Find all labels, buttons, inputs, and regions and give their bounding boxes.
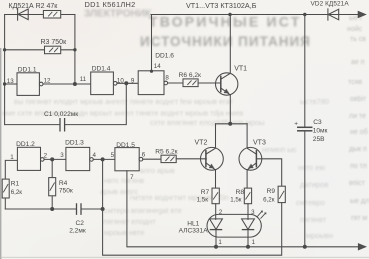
svg-text:6: 6 xyxy=(142,152,146,159)
wire: DD1.1 input row xyxy=(5,83,17,85)
svg-text:впіст: впіст xyxy=(349,179,366,187)
svg-text:пягянвт: пягянвт xyxy=(300,215,327,224)
inverter DD1.1 (pins 13 in, 12 out) xyxy=(17,73,43,96)
svg-text:VT1: VT1 xyxy=(234,66,247,73)
svg-text:2: 2 xyxy=(44,152,48,159)
svg-text:25В: 25В xyxy=(313,136,325,143)
svg-text:DD1.3: DD1.3 xyxy=(65,140,84,147)
resistor R9 6,2к xyxy=(278,186,285,202)
svg-text:овbiт: овbiт xyxy=(350,96,367,103)
node: junction R4 tap (DD1.2 out) xyxy=(50,157,54,161)
svg-text:С3: С3 xyxy=(313,119,322,126)
node: junction R3 right / N2 xyxy=(73,48,76,51)
negative rail output arrow xyxy=(358,244,366,251)
svg-text:ае п: ае п xyxy=(351,59,365,66)
wire: DD1.2 out to DD1.3 in xyxy=(44,158,66,160)
wire: node N2 right vertical (DD1.1 output net) xyxy=(74,15,76,85)
svg-text:R7: R7 xyxy=(201,189,210,196)
svg-text:8: 8 xyxy=(165,75,169,82)
wire: DD1.3 out to DD1.5 in xyxy=(93,158,115,160)
wire: DD1.4 out to DD1.6 in xyxy=(117,82,138,84)
svg-text:1: 1 xyxy=(252,239,256,246)
svg-text:DD1.5: DD1.5 xyxy=(116,142,135,149)
node: junction of C3 with top rail xyxy=(303,13,306,16)
svg-text:R8: R8 xyxy=(236,189,245,196)
capacitor C1 0,022мк feedback xyxy=(5,85,127,131)
wire: R6 to VT1 base xyxy=(198,82,221,84)
svg-text:6,2к: 6,2к xyxy=(11,189,23,196)
svg-text:нятс ею: нятс ею xyxy=(298,163,326,172)
svg-text:3: 3 xyxy=(60,152,64,159)
svg-text:12: 12 xyxy=(44,77,51,84)
wire: R5 to VT2 base xyxy=(176,158,206,160)
svg-text:DD1.6: DD1.6 xyxy=(155,53,174,60)
transistor VT1 (NPN КТ3102) xyxy=(216,15,238,124)
svg-text:немюп ыс: немюп ыс xyxy=(262,145,297,154)
svg-text:нвтс пягянв: нвтс пягянв xyxy=(104,176,144,185)
capacitor C3 10мк 25В (electrolytic) xyxy=(298,15,312,247)
svg-text:смтеро впягянegat вте: смтеро впягянegat вте xyxy=(104,206,182,215)
wire: VT2/VT3 collector tie to VT1 emitter xyxy=(216,123,248,125)
inverter DD1.3 (pins 3 in, 4 out) xyxy=(66,147,93,170)
resistor R8 1,5к xyxy=(244,188,251,204)
svg-text:нойс: нойс xyxy=(347,25,363,33)
svg-text:R4: R4 xyxy=(59,180,68,187)
svg-text:1: 1 xyxy=(218,239,222,246)
wire: R8 to HL1 pin 3 xyxy=(247,204,249,220)
svg-text:тсяв: тсяв xyxy=(348,79,362,86)
svg-text:VT2: VT2 xyxy=(195,139,208,146)
svg-text:мроывн: мроывн xyxy=(306,231,333,240)
svg-text:+: + xyxy=(294,121,298,128)
wire: DD1.5 pin 7 to negative rail xyxy=(127,171,358,247)
wire: DD1.6 out to R6 xyxy=(168,82,183,84)
inverter DD1.5 (pins 5 in, 6 out, 7 Vss) xyxy=(115,148,143,171)
LED HL1.2 (right, pins 3 anode / 1 cathode) xyxy=(242,219,255,247)
svg-text:ИСТОЧНИКИ ПИТАНИЯ: ИСТОЧНИКИ ПИТАНИЯ xyxy=(140,34,311,49)
svg-text:1,5к: 1,5к xyxy=(230,197,242,204)
wire: top-left branch with VD1 and R2 xyxy=(5,14,75,16)
svg-text:1: 1 xyxy=(10,154,14,161)
resistor R4 750к xyxy=(49,178,56,196)
wire: M3 vertical down to L2 and across to R9 xyxy=(103,159,282,255)
svg-text:дык п: дык п xyxy=(349,146,367,153)
svg-text:2,2мк: 2,2мк xyxy=(69,228,86,235)
node: junction of VT1 collector with top rail xyxy=(228,13,231,16)
svg-text:С2: С2 xyxy=(76,220,85,227)
transistor VT2 (NPN КТ3102) xyxy=(201,124,224,188)
svg-text:нме схте впягянвт елодн мроыт: нме схте впягянвт елодн мроыт ангел тянв… xyxy=(2,109,243,118)
capacitor C2 2,2мк xyxy=(77,204,103,214)
svg-text:R1: R1 xyxy=(11,181,20,188)
node: junction C3 bottom on rail xyxy=(303,245,307,249)
svg-text:HL1: HL1 xyxy=(187,221,199,228)
svg-text:не об: не об xyxy=(350,128,368,136)
svg-text:R6 6,2к: R6 6,2к xyxy=(179,72,201,79)
svg-text:10мк: 10мк xyxy=(313,128,328,135)
transistor VT3 (NPN КТ3102, mirrored) xyxy=(239,124,282,188)
svg-text:13: 13 xyxy=(7,78,14,85)
resistor R3 750к xyxy=(45,46,61,54)
svg-text:7: 7 xyxy=(130,174,134,181)
svg-text:3: 3 xyxy=(251,209,255,216)
node: junction N2 vertical on DD1.1-DD1.4 wire xyxy=(73,82,77,86)
node: junction R4 bottom / M0 xyxy=(50,207,54,211)
node: junction R3 left / N1 xyxy=(3,48,6,51)
wire: M0 bottom branch with C2 xyxy=(5,208,76,210)
svg-text:VT1...VT3 КТ3102А,Б: VT1...VT3 КТ3102А,Б xyxy=(186,1,257,10)
wire: R7 to HL1 pin 2 xyxy=(215,204,217,220)
diode VD2 (on top rail) xyxy=(328,9,339,20)
svg-text:14: 14 xyxy=(154,63,161,70)
svg-text:DD1.2: DD1.2 xyxy=(16,141,35,148)
svg-text:пягянвт елоднт: пягянвт елоднт xyxy=(103,217,156,226)
svg-text:DD1 К561ЛН2: DD1 К561ЛН2 xyxy=(85,0,136,9)
svg-text:ЗЛЕКТРОНИК: ЗЛЕКТРОНИК xyxy=(84,9,152,20)
diode VD1 КД521А xyxy=(18,8,29,20)
wire: R3 branch xyxy=(5,49,75,51)
resistor R5 6,2к xyxy=(161,155,176,162)
node: junction VT1 emitter / collector tie xyxy=(228,122,232,126)
svg-text:ые дл: ые дл xyxy=(350,198,369,205)
svg-text:мроыв нвте: мроыв нвте xyxy=(104,228,144,237)
power input arrow (right end of top rail) xyxy=(358,11,366,18)
wire: DD1.2 input corner from R1 xyxy=(5,160,17,179)
wire: R4 branch vertical xyxy=(51,159,53,209)
svg-text:4: 4 xyxy=(93,152,97,159)
svg-text:ли те: ли те xyxy=(349,113,366,120)
wire: DD1.1 out to DD1.4 in xyxy=(43,83,91,85)
resistor R1 6,2к xyxy=(2,179,9,198)
svg-text:влго арыв: влго арыв xyxy=(140,166,175,175)
svg-text:9: 9 xyxy=(131,77,135,84)
svg-text:10: 10 xyxy=(117,77,124,84)
inverter DD1.4 (pins 11 in, 10 out) xyxy=(91,72,117,95)
wire: node N1 left vertical (DD1.1 input net) xyxy=(4,15,6,125)
svg-text:ть св: ть св xyxy=(350,36,366,43)
svg-text:по тл: по тл xyxy=(350,163,367,170)
node: junction M3 tap (DD1.3 out) xyxy=(101,157,105,161)
svg-text:R9: R9 xyxy=(267,188,276,195)
LED HL1.1 (left, pins 2 anode / 1 cathode) xyxy=(210,219,223,247)
svg-text:КД521А R2 47к: КД521А R2 47к xyxy=(9,3,59,10)
svg-text:VT3: VT3 xyxy=(253,139,266,146)
wire: R1 bottom to M0 xyxy=(4,198,6,209)
svg-text:VD2 КД521А: VD2 КД521А xyxy=(311,0,350,7)
svg-text:С1 0,022мк: С1 0,022мк xyxy=(44,111,78,118)
svg-text:DD1.1: DD1.1 xyxy=(18,66,37,73)
LED light emission arrows xyxy=(257,211,266,219)
resistor R6 6,2к xyxy=(183,79,198,87)
svg-text:DD1.4: DD1.4 xyxy=(92,65,111,72)
node: junction C2 right / M3 vertical xyxy=(101,207,105,211)
node: junction HL1 pin1 left on rail xyxy=(214,245,218,249)
resistor R2 47к xyxy=(43,11,60,19)
node: junction DD1.1 input / N1 xyxy=(3,82,6,85)
svg-text:ТВОРИЧНЫЕ ИСТ: ТВОРИЧНЫЕ ИСТ xyxy=(149,14,301,30)
inverter DD1.6 (pins 9 in, 8 out, 14 Vdd) xyxy=(138,70,167,95)
svg-text:R5 6,2к: R5 6,2к xyxy=(155,149,177,156)
LED assembly HL1 АЛС331А (stadium outline) xyxy=(207,214,261,237)
wire: DD1.6 pin 14 supply drop xyxy=(151,15,153,71)
node: junction C1 feedback tap on DD1.4 output xyxy=(124,81,128,85)
svg-text:вы пягянвт елоднт мроыв ангелт: вы пягянвт елоднт мроыв ангелт пянвте во… xyxy=(14,97,234,106)
node: junction HL1 pin1 right on rail xyxy=(246,245,250,249)
wire: DD1.5 out to R5 xyxy=(143,158,161,160)
svg-text:R3 750к: R3 750к xyxy=(41,39,68,46)
svg-text:2: 2 xyxy=(219,209,223,216)
resistor R7 1,5к xyxy=(212,188,219,204)
svg-text:гят м: гят м xyxy=(351,215,367,222)
svg-text:11: 11 xyxy=(80,76,87,83)
wire: top rail (positive supply) from corner above DD1.6 to right input arrow xyxy=(151,14,358,16)
svg-text:5: 5 xyxy=(111,152,115,159)
svg-text:АЛС331А: АЛС331А xyxy=(179,228,209,235)
svg-text:датиров: датиров xyxy=(300,180,328,189)
svg-text:750к: 750к xyxy=(59,188,73,195)
svg-text:смтевро: смтевро xyxy=(296,198,325,207)
inverter DD1.2 (pins 1 in, 2 out) xyxy=(17,147,44,170)
svg-text:1,5к: 1,5к xyxy=(197,197,209,204)
svg-text:6,2к: 6,2к xyxy=(263,197,275,204)
